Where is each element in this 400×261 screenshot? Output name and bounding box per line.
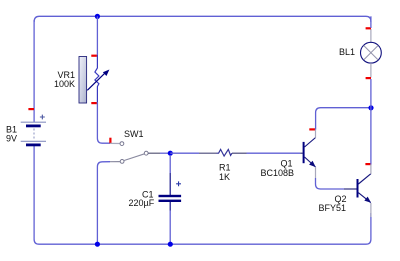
- wire R1 to Q1 base: [247, 152, 301, 154]
- wire top rail to BL1: [370, 16, 372, 28]
- transistor Q1: [304, 138, 318, 170]
- wire junction to R1: [170, 152, 199, 154]
- Q2 base lead: [344, 188, 357, 190]
- Q2 collector lead: [370, 164, 372, 174]
- switch SW1 arm contact circle: [120, 160, 124, 164]
- transistor Q2: [358, 174, 373, 205]
- Q1 base lead: [300, 152, 303, 154]
- svg-text:9V: 9V: [6, 134, 17, 144]
- Q2 collector terminal tick: [365, 163, 371, 165]
- wire Q1 emitter to Q2 base: [316, 178, 345, 189]
- resistor VR1 body: [79, 57, 87, 104]
- resistor R1 right lead: [232, 152, 247, 154]
- BL1 terminal tick top: [366, 27, 371, 29]
- switch SW1 throw lead: [148, 152, 160, 154]
- Q1 collector terminal tick: [309, 128, 315, 130]
- wire left rail upper (to battery): [33, 20, 35, 122]
- switch SW1 lead top: [110, 142, 120, 144]
- Q2 emitter lead: [370, 203, 372, 217]
- svg-text:BL1: BL1: [339, 47, 355, 57]
- node bottom left (switch branch to bottom rail): [95, 242, 100, 247]
- node bottom C1 junction: [168, 242, 173, 247]
- switch SW1 terminal tick: [109, 138, 111, 144]
- wire VR1 to switch: [97, 102, 110, 143]
- svg-text:220µF: 220µF: [129, 198, 155, 208]
- Q1 collector lead: [315, 129, 317, 138]
- wire left rail lower and bottom rail and right riser: [34, 146, 371, 244]
- node top (VR1 branch junction): [95, 14, 100, 19]
- svg-text:100K: 100K: [54, 79, 75, 89]
- switch SW1 arm lead: [110, 161, 120, 163]
- resistor R1 left lead: [199, 152, 217, 154]
- wire VR1 branch from top rail: [96, 16, 98, 55]
- svg-text:Q1: Q1: [281, 159, 293, 169]
- lamp BL1: [361, 29, 382, 78]
- svg-text:1K: 1K: [219, 172, 230, 182]
- node C1 top junction: [168, 151, 173, 156]
- wire Q2 collector to lamp node: [370, 108, 372, 165]
- svg-text:BFY51: BFY51: [319, 203, 347, 213]
- battery B1: [21, 108, 46, 145]
- svg-text:BC108B: BC108B: [261, 168, 295, 178]
- wire switch arm to lower-left riser: [97, 162, 110, 245]
- svg-text:R1: R1: [219, 163, 231, 173]
- wire top rail: [34, 16, 371, 22]
- capacitor C1: [159, 155, 182, 244]
- VR1 terminal tick top: [91, 55, 97, 57]
- svg-text:SW1: SW1: [124, 129, 144, 139]
- switch SW1 throw contact circle: [144, 151, 148, 155]
- node lamp bottom junction: [368, 105, 373, 110]
- VR1 terminal tick bottom: [91, 102, 97, 104]
- switch SW1 arm: [124, 154, 145, 161]
- resistor R1: [217, 149, 233, 156]
- wire Q1 collector up and right to lamp node: [316, 108, 371, 130]
- wire switch throw to R1 junction: [160, 152, 171, 154]
- wire BL1 to lamp node: [370, 79, 372, 108]
- BL1 terminal tick bottom: [366, 77, 371, 79]
- VR1 track wire with zigzag: [95, 55, 99, 103]
- switch SW1 pole contact circle: [120, 142, 124, 146]
- VR1 wiper arrow: [87, 68, 111, 91]
- Q1 emitter lead: [315, 167, 317, 178]
